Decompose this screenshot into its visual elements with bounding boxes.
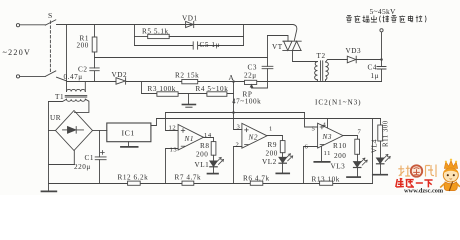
wire N1 output [204,138,214,142]
svg-text:13: 13 [170,147,178,154]
transformer T1 primary vertical feed [66,25,68,92]
svg-text:T2: T2 [317,52,326,60]
svg-text:12: 12 [169,125,177,132]
wire T2 secondary top to VD3 [326,60,348,63]
op-amp N3 [318,123,343,148]
diode VD1 [186,21,194,27]
wire UR bottom to ground rail [49,151,75,165]
ground divider mid [188,94,190,104]
svg-text:5: 5 [312,126,316,133]
wire T1 secondary left lead [49,99,67,101]
LED VL2 [279,157,286,163]
resistor R4 [207,92,227,97]
wire R3 R4 divider line [142,82,234,94]
transformer T1 primary right stub [84,82,86,92]
svg-text:R12 6.2k: R12 6.2k [118,174,149,182]
wire UR left to ground rail [49,130,56,132]
svg-text:47~100k: 47~100k [232,98,261,106]
svg-text:~220V: ~220V [3,48,32,57]
node A dot [232,80,235,83]
watermark dzsc.com [396,159,460,195]
svg-text:R7 4.7k: R7 4.7k [175,174,202,182]
potentiometer RP [245,80,257,84]
wire VT MT1 to T2 [293,50,318,61]
watermark weiku text [396,179,433,188]
resistor R7 [182,181,194,185]
resistor R13 [320,181,333,185]
resistor R1 [94,25,96,38]
svg-text:R11 300: R11 300 [383,120,390,147]
terminal lower (mains input) [16,75,19,78]
wire N2 output [267,136,283,141]
wire N1 noninverting feed [166,113,179,131]
svg-text:R10: R10 [333,142,347,150]
svg-text:R5 5.1k: R5 5.1k [142,28,169,36]
wire RP to C3 node [257,81,382,83]
svg-text:IC2(N1~N3): IC2(N1~N3) [315,99,362,107]
op-amp N2 [242,123,267,148]
wire supply line 2 [157,118,381,120]
diode VD3 [347,56,356,63]
bridge rectifier UR body [56,111,93,151]
svg-text:T1: T1 [55,93,64,101]
svg-text:R13 10k: R13 10k [312,176,340,184]
svg-text:R4 5~10k: R4 5~10k [196,85,229,93]
node dot on line 1 [232,111,235,114]
svg-text:VL4: VL4 [372,139,379,153]
ground VL1 [208,173,219,175]
transformer T2 core [321,61,323,81]
capacitor C5 branch [135,42,244,49]
svg-text:7: 7 [358,129,362,136]
LED VL1 [210,161,217,167]
wire main lower bus right [198,81,245,83]
wire N2 inverting input [234,147,242,184]
svg-text:C5 1μ: C5 1μ [200,41,220,49]
resistor R2 [182,80,198,84]
svg-text:VL2: VL2 [262,158,277,166]
triac VT [268,36,289,42]
ground IC1 [128,142,130,147]
wire N2 noninverting feed [234,113,242,130]
svg-text:200: 200 [77,42,89,50]
svg-text:22μ: 22μ [244,72,257,80]
wire UR right output to IC1 [93,130,107,132]
wire N3 noninverting feed [305,113,318,128]
svg-text:1μ: 1μ [371,72,380,80]
svg-text:C1: C1 [85,154,95,162]
watermark red circle logo [411,165,422,176]
svg-text:6: 6 [305,144,309,151]
wire IC1 output to supply line [151,119,157,126]
svg-text:www.dzsc.com: www.dzsc.com [404,187,444,194]
resistor R3 [157,92,178,97]
wire C2 top line to VT node [95,57,268,59]
svg-text:C3: C3 [248,64,258,72]
svg-text:S: S [48,11,53,20]
op-amp N1 [178,125,203,151]
svg-text:R8: R8 [200,142,210,150]
resistor R8 [211,142,216,156]
bridge UR inner diode [63,129,68,131]
transformer T2 secondary winding [326,62,329,80]
terminal HV output [380,29,383,32]
svg-text:N1: N1 [184,135,195,143]
svg-text:VT: VT [272,43,283,51]
svg-text:220μ: 220μ [74,163,91,171]
svg-text:VL3: VL3 [331,163,346,171]
svg-text:R9: R9 [268,141,278,149]
wire bottom divider bus [49,183,373,185]
capacitor C4 [381,60,383,67]
resistor R12 [128,181,141,185]
wire lower input to switch [20,75,46,77]
svg-text:4: 4 [323,122,327,129]
svg-text:N3: N3 [322,133,333,141]
svg-text:IC1: IC1 [122,129,135,138]
terminal upper (mains input) [16,24,19,27]
capacitor C1 [99,131,101,157]
svg-text:VD1: VD1 [182,15,198,23]
resistor R6 [250,181,262,185]
svg-text:200: 200 [196,151,208,159]
svg-text:R3 100k: R3 100k [148,85,176,93]
wire HV output [381,32,383,60]
diode VD2 [116,78,125,85]
svg-text:C4: C4 [368,64,378,72]
svg-text:0.47μ: 0.47μ [64,73,83,81]
svg-text:3: 3 [237,124,241,131]
wire top bus after switch [57,25,297,42]
svg-text:14: 14 [204,132,212,139]
svg-text:2: 2 [236,142,240,149]
LED VL3 [354,162,361,168]
switch gang dashed link [49,21,51,72]
wire N3 inverting input [304,147,318,184]
transformer T1 core [65,96,87,97]
svg-text:11: 11 [324,150,331,157]
wire N3 output [343,136,358,140]
transformer T1 primary winding [67,89,86,91]
wire upper input to switch [20,24,46,26]
IC1 regulator box [107,123,151,142]
svg-text:UR: UR [50,114,61,122]
watermark mascot [440,159,460,191]
wire sense line 1 [166,112,305,114]
wire node A down feed [233,82,235,113]
ground N3 pin11 [314,161,329,163]
svg-text:N2: N2 [248,134,259,142]
svg-text:VL1: VL1 [195,161,210,169]
LED VL4 [377,158,384,164]
svg-text:200: 200 [334,152,346,160]
ground VL3 [347,176,360,178]
resistor R9 [280,141,285,153]
capacitor C3 [267,36,269,67]
node C4 dot [380,58,383,61]
switch S lower blade [45,71,56,77]
resistor R5 branch [134,25,136,46]
wire divider bus riser [372,119,374,184]
ground VL2 [276,172,289,174]
ground left rail [48,102,50,192]
svg-text:1: 1 [269,126,273,133]
switch S upper blade [45,20,56,25]
svg-text:R6 4.7k: R6 4.7k [243,175,270,183]
ground VL4 [373,174,387,176]
capacitor C2 [90,68,99,82]
watermark faded seek-IC text [398,165,436,178]
wire T1 secondary right lead to UR top [75,99,89,112]
transformer T1 secondary winding [67,99,86,101]
svg-text:5~45kV: 5~45kV [370,7,397,16]
svg-text:VD3: VD3 [346,47,362,55]
wire N3 pin11 ground stub [321,146,323,161]
resistor R11 chain [380,119,382,126]
label HV output chinese annotation [346,16,426,23]
wire N3 pin4 supply stub [327,119,329,128]
wire main lower bus [57,77,117,81]
svg-text:A: A [229,74,235,82]
transformer T2 primary winding [315,62,318,80]
svg-text:VD2: VD2 [112,71,128,79]
wire VD3 to C4 node [356,59,381,61]
wire main lower bus middle [126,81,182,83]
wire N1 inverting input [166,149,179,184]
svg-text:200: 200 [266,150,278,158]
svg-text:R2 15k: R2 15k [175,72,199,80]
resistor R10 [355,139,360,154]
